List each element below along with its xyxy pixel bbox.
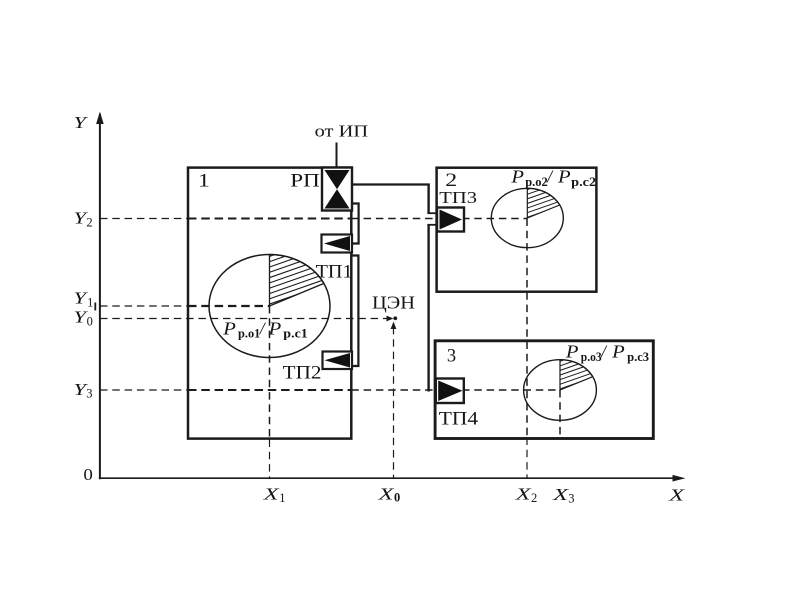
svg-text:ТП4: ТП4 [439, 410, 478, 430]
circle 1 pie P1 [209, 255, 330, 358]
transformer ТП1 box [322, 235, 353, 253]
circle 2 sector hatching [522, 176, 567, 224]
label P1 ratio [222, 319, 308, 341]
svg-text:3: 3 [447, 347, 456, 367]
svg-text:от ИП: от ИП [315, 122, 369, 141]
rectangle 1 (consumer 1 outline) [188, 168, 351, 439]
svg-text:ТП1: ТП1 [316, 263, 353, 283]
dashed line Y0 horizontal [100, 318, 387, 320]
svg-text:P: P [510, 166, 524, 186]
svg-text:1: 1 [198, 172, 210, 192]
dashed line Y2 horizontal to circle 2 [351, 218, 527, 220]
transformer ТП1 triangle [324, 236, 350, 251]
dashed line X3 vertical [559, 390, 561, 438]
tick at Y1 on axis [94, 303, 96, 311]
svg-text:X: X [668, 486, 686, 505]
transformer ТП2 triangle [325, 353, 351, 368]
svg-text:P: P [611, 342, 625, 362]
svg-text:0: 0 [87, 314, 93, 328]
svg-text:P: P [557, 166, 571, 186]
svg-text:ТП3: ТП3 [439, 188, 477, 207]
valve РП box [322, 168, 352, 211]
svg-text:р.с1: р.с1 [283, 327, 308, 341]
svg-text:X: X [552, 485, 570, 504]
svg-text:2: 2 [86, 215, 92, 229]
svg-text:X: X [514, 485, 532, 504]
rectangle 3 (consumer 3 outline) [435, 341, 653, 439]
svg-text:P: P [565, 342, 579, 362]
transformer ТП2 box [323, 352, 353, 370]
circle 2 pie P2 [491, 188, 563, 247]
svg-text:р.о2: р.о2 [525, 175, 548, 189]
transformer ТП4 triangle [438, 381, 462, 402]
dashed line X2 vertical [526, 219, 528, 438]
label P3 ratio [565, 342, 649, 365]
dashed line X2 vertical below rect 3 [526, 438, 528, 478]
svg-text:0: 0 [83, 465, 93, 484]
dashed line Y3 horizontal to circle 3 [351, 389, 560, 391]
dashed line Y2 horizontal thin [100, 218, 188, 220]
label P2 ratio [510, 166, 596, 189]
wire main vertical lower segment [427, 225, 429, 392]
svg-text:р.о3: р.о3 [581, 350, 602, 364]
svg-text:р.с3: р.с3 [627, 350, 649, 364]
wire stub cap to ТП3 bottom [427, 224, 436, 226]
ЦЭН arrow right [387, 316, 394, 322]
circle 2 sector radii [527, 188, 559, 218]
svg-text:P: P [222, 319, 236, 339]
wire РП output horizontal [352, 183, 430, 185]
svg-text:X: X [262, 485, 280, 504]
svg-text:РП: РП [290, 172, 320, 192]
dashed line X0 vertical [393, 327, 395, 478]
axis Y arrowhead [96, 112, 104, 125]
svg-text:1: 1 [87, 295, 93, 309]
dashed line X1 vertical below rect 1 [269, 440, 271, 478]
axis Y [99, 114, 101, 479]
circle 3 sector hatching [555, 347, 600, 395]
dashed line Y3 horizontal thin [100, 389, 188, 391]
svg-text:р.о1: р.о1 [238, 327, 260, 341]
svg-text:ЦЭН: ЦЭН [372, 293, 415, 313]
dashed line Y1 horizontal thick (pie radius) [188, 305, 270, 307]
rectangle 2 (consumer 2 outline) [437, 168, 597, 292]
circle 1 sector radii [270, 255, 324, 307]
valve РП bowtie [325, 170, 350, 209]
dashed line Y3 horizontal thick inside rect 1 [188, 389, 351, 391]
svg-text:р.с2: р.с2 [571, 175, 596, 189]
svg-text:X: X [377, 485, 395, 504]
circle 3 sector radii [560, 360, 593, 390]
wire from IP (от ИП drop line) [336, 143, 338, 169]
circle 1 sector hatching [265, 234, 335, 312]
wire main vertical upper segment [427, 184, 429, 214]
circle 3 pie P3 [524, 360, 597, 421]
ЦЭН arrow up [391, 322, 397, 330]
wire bracket РП to ТП1 [352, 204, 359, 244]
ЦЭН point dot [393, 316, 397, 320]
svg-text:1: 1 [279, 491, 285, 505]
dashed line X1 vertical inside rect 1 [269, 306, 271, 440]
svg-text:P: P [267, 319, 281, 339]
svg-text:3: 3 [568, 491, 574, 505]
wire bracket ТП1 to ТП2 [353, 256, 359, 367]
transformer ТП4 box [436, 379, 464, 404]
axis X [99, 477, 681, 479]
dashed line Y2 horizontal thick inside rect 1 [188, 218, 351, 220]
wire stub cap to ТП3 top [427, 212, 436, 214]
svg-text:3: 3 [86, 387, 92, 401]
transformer ТП3 box [437, 208, 464, 232]
svg-text:0: 0 [394, 491, 400, 505]
svg-text:Y: Y [74, 113, 89, 132]
transformer ТП3 triangle [440, 210, 463, 230]
svg-text:2: 2 [531, 491, 537, 505]
axis X arrowhead [673, 475, 686, 482]
dashed line Y1 horizontal thin [100, 305, 188, 307]
svg-text:ТП2: ТП2 [283, 364, 322, 384]
